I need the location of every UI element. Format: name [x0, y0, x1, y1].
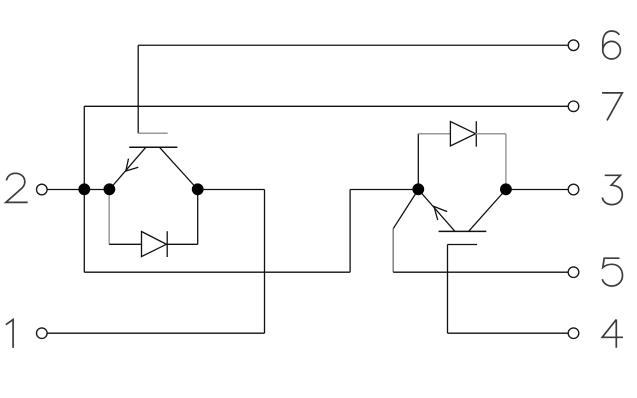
wire diode D1 anode drop: [108, 190, 110, 245]
pin label 6: [603, 31, 621, 59]
wire pin 3 horizontal: [506, 189, 569, 191]
transistor Q1 collector diagonal: [159, 147, 197, 189]
transistor Q1 base bar: [129, 146, 177, 148]
transistor Q2 base bar: [439, 230, 487, 232]
wire diode D2 cathode horizontal: [476, 133, 506, 135]
wire diode D1 cathode horizontal: [166, 243, 197, 245]
junction dot Q2 collector node: [500, 183, 512, 195]
wire pin 2 horizontal: [47, 189, 110, 191]
diode D1 triangle: [142, 232, 167, 257]
terminal circle 3: [568, 184, 579, 195]
wire Q1 gate lead horizontal: [138, 132, 168, 134]
wire Q2 gate lead horizontal: [448, 244, 478, 246]
transistor Q2 collector diagonal: [469, 190, 506, 232]
terminal circle 4: [568, 328, 579, 339]
terminal circle 7: [568, 101, 579, 112]
terminal circle 1: [37, 328, 48, 339]
pin label 4: [602, 320, 623, 348]
pin label 1: [6, 320, 13, 348]
wire diode D2 anode horizontal: [418, 133, 450, 135]
wire pin 6 horizontal: [138, 44, 568, 46]
wire into node C2: [350, 189, 418, 191]
wire diode D1 anode horizontal: [109, 243, 141, 245]
transistor Q1 emitter arrowhead: [126, 159, 139, 171]
wire aux emitter vertical: [392, 229, 394, 273]
diode D2 triangle: [450, 122, 475, 147]
pin label 3: [602, 175, 622, 204]
terminal circle 2: [37, 184, 48, 195]
transistor Q2 emitter arrowhead: [434, 207, 447, 221]
wire pin 7 horizontal: [84, 105, 568, 107]
wire diode D2 anode riser: [417, 134, 419, 190]
diode D1 cathode bar: [166, 231, 168, 257]
terminal circle 6: [568, 40, 579, 51]
terminal circle 5: [568, 267, 579, 278]
junction dot Q2 emitter node: [412, 183, 424, 195]
junction dot Q1 emitter node: [104, 183, 116, 195]
wire pin 4 horizontal: [448, 332, 569, 334]
wire elbow down to pin1 level: [264, 190, 266, 334]
wire bottom bus horizontal: [84, 271, 350, 273]
pin label 5: [602, 258, 622, 286]
wire diode D1 cathode riser: [197, 190, 199, 245]
pin label 2: [6, 173, 28, 202]
wire pin 1 horizontal: [47, 332, 265, 334]
wire left bus vertical: [83, 106, 85, 272]
wire aux emitter diagonal: [393, 190, 418, 229]
wire node C1 to elbow: [198, 189, 265, 191]
wire Q2 gate vertical to pin4: [447, 245, 449, 334]
transistor Q2 emitter diagonal: [418, 190, 455, 232]
wire pin 5 horizontal: [393, 271, 568, 273]
junction dot Q1 collector node: [192, 183, 204, 195]
junction dot node 2 bus: [78, 183, 90, 195]
wire Q1 gate vertical: [137, 45, 139, 133]
wire riser to node C2: [349, 190, 351, 273]
transistor Q1 emitter diagonal: [109, 147, 145, 189]
pin label 7: [602, 93, 622, 121]
wire diode D2 cathode drop: [505, 134, 507, 190]
diode D2 cathode bar: [475, 121, 477, 146]
